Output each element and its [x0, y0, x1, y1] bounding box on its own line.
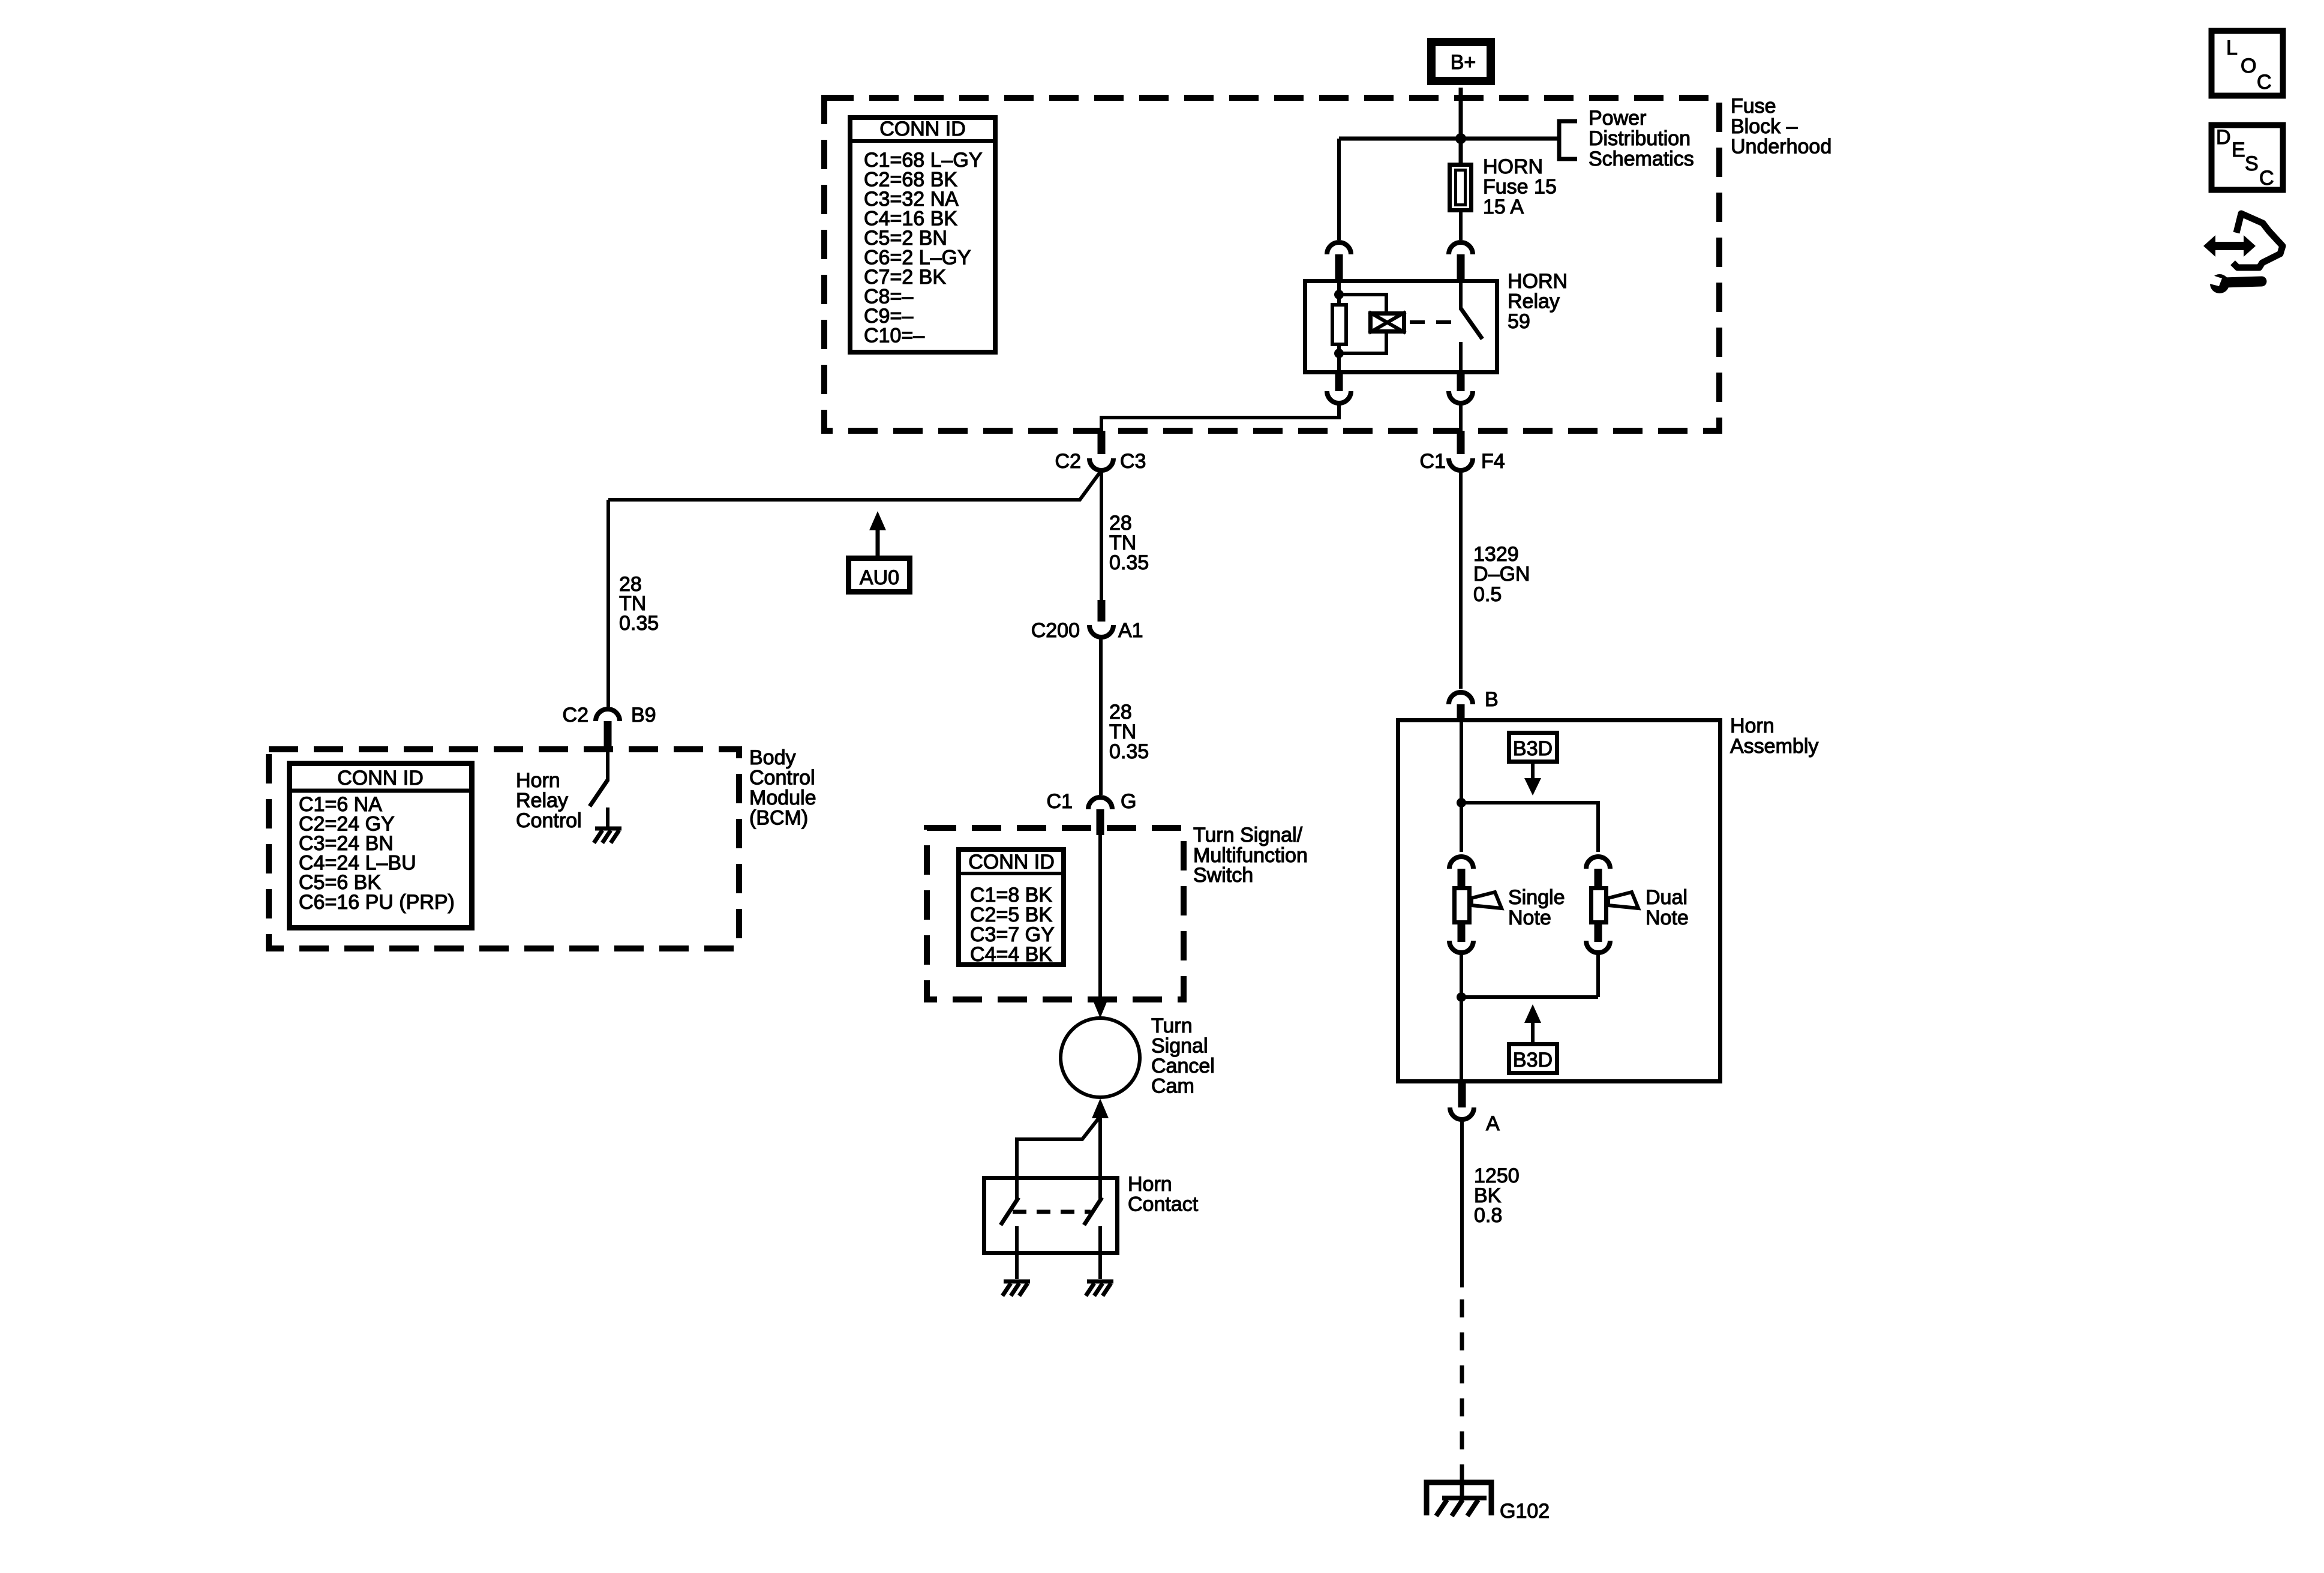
- B3D arrow shaft (top): [1531, 762, 1535, 780]
- left horn contact switch blade: [1001, 1197, 1019, 1225]
- svg-text:C200: C200: [1031, 619, 1080, 642]
- connector C1/G stub: [1097, 809, 1104, 835]
- svg-text:Dual: Dual: [1646, 886, 1688, 909]
- svg-text:C: C: [2257, 71, 2272, 94]
- wire: run down to BCM: [606, 500, 610, 707]
- svg-text:CONN ID: CONN ID: [337, 767, 424, 789]
- turn signal cancel cam circle: [1061, 1018, 1140, 1097]
- wire resistor to relay bottom: [1337, 344, 1341, 374]
- dual note horn flag: [1608, 892, 1638, 908]
- CONN ID table (fuse block): [848, 118, 998, 352]
- connector C1/F4 arc: [1449, 458, 1473, 470]
- right horn contact bottom contact: [1098, 1226, 1102, 1279]
- wire label 1250 BK 0.8: [1474, 1164, 1520, 1227]
- svg-text:Body: Body: [749, 746, 796, 769]
- chassis ground (left horn contact): [1002, 1281, 1030, 1296]
- AU0 option arrow shaft: [876, 529, 880, 556]
- BCM switch blade: [590, 780, 608, 806]
- chassis ground (right horn contact): [1086, 1281, 1113, 1296]
- connector arc below relay (switch output): [1449, 391, 1473, 403]
- svg-text:C: C: [2259, 167, 2274, 190]
- dual note connector arc (bottom): [1586, 941, 1610, 953]
- arrowhead from horn contact (up): [1092, 1098, 1109, 1118]
- dual note stub (bottom): [1595, 924, 1602, 942]
- svg-text:O: O: [2241, 55, 2256, 77]
- battery B+ symbol: [1431, 42, 1491, 81]
- svg-text:C1: C1: [1047, 790, 1073, 813]
- svg-text:Control: Control: [516, 809, 582, 832]
- node dot (horn feed split): [1457, 798, 1466, 807]
- connector A arc: [1450, 1107, 1474, 1119]
- connector C1/F4 stub: [1457, 431, 1465, 454]
- connector arc below relay (coil low side): [1327, 391, 1351, 403]
- right horn contact switch top contact: [1098, 1176, 1102, 1199]
- label: HORN Relay 59: [1508, 270, 1568, 333]
- wire: cam arrow fork to left horn contact: [1017, 1117, 1100, 1177]
- svg-text:Relay: Relay: [516, 789, 568, 812]
- svg-text:Control: Control: [749, 767, 815, 789]
- svg-text:Horn: Horn: [516, 769, 560, 792]
- label: HORN Fuse 15 15A: [1483, 155, 1557, 218]
- svg-text:Fuse 15: Fuse 15: [1483, 176, 1557, 199]
- battery feed wire: [1459, 88, 1463, 163]
- power distribution schematics bracket: [1559, 121, 1577, 159]
- svg-text:A: A: [1486, 1112, 1500, 1135]
- svg-text:Single: Single: [1508, 886, 1565, 909]
- ground G102: [1427, 1482, 1550, 1523]
- wire: single note to low junction: [1460, 953, 1463, 999]
- label: Turn Signal/Multifunction Switch: [1193, 824, 1308, 887]
- svg-text:AU0: AU0: [860, 566, 899, 589]
- svg-text:D–GN: D–GN: [1473, 563, 1530, 586]
- wire: relay switch output to C1/F4: [1459, 403, 1463, 433]
- wire: into ground: [1460, 1471, 1464, 1498]
- svg-text:B: B: [1485, 688, 1499, 711]
- svg-text:Cancel: Cancel: [1151, 1055, 1215, 1077]
- connector C2/C3 stub: [1098, 431, 1106, 454]
- B3D arrowhead (bottom, up): [1524, 1004, 1541, 1023]
- fuse HORN Fuse 15: [1450, 165, 1472, 211]
- svg-text:0.35: 0.35: [619, 612, 659, 635]
- B3D destination box (bottom): [1509, 1044, 1557, 1073]
- svg-text:G: G: [1121, 790, 1136, 813]
- body control module dashed box: [269, 749, 739, 948]
- svg-text:B+: B+: [1451, 51, 1476, 74]
- connector A stub: [1458, 1083, 1466, 1107]
- horn assembly box: [1398, 721, 1721, 1082]
- wire: cam arrow to right horn contact: [1098, 1117, 1102, 1177]
- left horn contact bottom contact: [1015, 1226, 1019, 1279]
- svg-text:Signal: Signal: [1151, 1035, 1208, 1058]
- svg-text:0.35: 0.35: [1109, 551, 1149, 574]
- relay coil branch wiring: [1339, 295, 1386, 353]
- svg-text:CONN ID: CONN ID: [879, 118, 966, 140]
- svg-text:Fuse: Fuse: [1731, 95, 1776, 118]
- svg-text:C2: C2: [563, 704, 588, 727]
- svg-text:Turn: Turn: [1151, 1014, 1193, 1037]
- label: Fuse Block - Underhood: [1731, 95, 1831, 158]
- svg-text:C1: C1: [1420, 450, 1446, 473]
- wire: B pin to branch junction: [1460, 720, 1463, 852]
- resistor (relay): [1332, 305, 1346, 344]
- wire: dual note return to junction: [1461, 995, 1598, 999]
- svg-text:59: 59: [1508, 310, 1530, 333]
- connector B arc: [1449, 692, 1473, 704]
- label: Horn Relay Control: [516, 769, 582, 832]
- label: Dual Note: [1646, 886, 1689, 929]
- svg-text:C10=–: C10=–: [864, 325, 924, 347]
- connector C2/B9 stub: [604, 721, 612, 751]
- AU0 option box: [849, 559, 910, 592]
- dashed actuation link coil to switch: [1410, 320, 1454, 324]
- svg-text:Underhood: Underhood: [1731, 136, 1831, 158]
- wire label 28 TN 0.35 (lower): [1109, 701, 1149, 763]
- svg-text:0.35: 0.35: [1109, 740, 1149, 763]
- svg-text:S: S: [2245, 152, 2259, 175]
- relay switch blade: [1461, 308, 1482, 339]
- node dot (horn return join): [1457, 992, 1466, 1002]
- wire: junction down to A pin: [1460, 997, 1463, 1086]
- pin stub out of relay (coil low side): [1335, 374, 1343, 391]
- dual note horn connector arc (top): [1586, 857, 1610, 869]
- pin stub out of relay (switch output): [1457, 374, 1465, 391]
- svg-text:Switch: Switch: [1193, 864, 1253, 887]
- wire: C1/G into switch down to cancel cam: [1098, 835, 1102, 999]
- double arrow icon: [2203, 235, 2256, 257]
- svg-text:B9: B9: [631, 704, 656, 727]
- svg-text:Horn: Horn: [1730, 715, 1774, 737]
- label: Power Distribution Schematics: [1589, 107, 1694, 170]
- relay switch top contact: [1459, 279, 1463, 310]
- svg-text:B3D: B3D: [1513, 1049, 1553, 1071]
- svg-text:Note: Note: [1646, 906, 1689, 929]
- svg-text:A1: A1: [1118, 619, 1143, 642]
- svg-text:C4=4 BK: C4=4 BK: [970, 943, 1052, 966]
- svg-text:C6=16 PU (PRP): C6=16 PU (PRP): [299, 891, 455, 914]
- label: Horn Assembly: [1730, 715, 1818, 758]
- svg-text:Note: Note: [1508, 906, 1551, 929]
- svg-text:G102: G102: [1500, 1500, 1550, 1523]
- svg-text:E: E: [2232, 139, 2245, 161]
- svg-text:Distribution: Distribution: [1589, 127, 1691, 150]
- connector arc (relay switch pin, top right): [1449, 242, 1473, 254]
- single note horn connector arc (top): [1449, 857, 1473, 869]
- chassis ground (BCM): [594, 828, 621, 843]
- svg-text:C3: C3: [1120, 450, 1146, 473]
- wire: fuse to relay switch connector: [1459, 212, 1463, 240]
- inline connector C200/A1 arc: [1089, 625, 1113, 637]
- svg-text:F4: F4: [1481, 450, 1505, 473]
- dashed gang link between contacts: [1013, 1210, 1091, 1214]
- wire label 28 TN 0.35 (upper): [1109, 512, 1149, 574]
- label: Horn Contact: [1128, 1173, 1199, 1216]
- label: Body Control Module (BCM): [749, 746, 816, 830]
- B3D arrow shaft (bottom): [1531, 1022, 1535, 1044]
- wire: branch to dual note: [1461, 803, 1598, 852]
- hand/flag outline icon: [2233, 214, 2283, 268]
- wire label 1329 D-GN 0.5: [1473, 543, 1530, 606]
- svg-text:Turn Signal/: Turn Signal/: [1193, 824, 1303, 846]
- wire: A down: [1460, 1119, 1464, 1287]
- wire: C1/F4 down to horn assembly: [1459, 470, 1463, 689]
- AU0 option arrowhead: [869, 511, 886, 530]
- connector C2/B9 arc: [596, 709, 620, 721]
- wire label 28 TN 0.35 (BCM branch): [619, 573, 659, 635]
- svg-text:Power: Power: [1589, 107, 1646, 130]
- horn relay 59 box: [1305, 281, 1497, 373]
- svg-text:Schematics: Schematics: [1589, 148, 1694, 170]
- single note stub (top): [1458, 869, 1466, 887]
- inline connector C200/A1 stub: [1098, 600, 1106, 622]
- B3D destination box (top): [1509, 733, 1557, 762]
- svg-text:15 A: 15 A: [1483, 196, 1524, 218]
- svg-text:(BCM): (BCM): [749, 807, 808, 830]
- svg-text:D: D: [2216, 126, 2231, 149]
- svg-text:Cam: Cam: [1151, 1075, 1194, 1098]
- wire: C200 to turn signal switch: [1099, 637, 1103, 795]
- fuse block underhood dashed box: [824, 98, 1719, 431]
- LOC icon box: [2212, 31, 2283, 96]
- wrench icon: [2203, 273, 2262, 293]
- wire: dual note to low junction: [1596, 953, 1600, 997]
- left horn contact switch top contact: [1015, 1176, 1019, 1199]
- single note horn flag: [1472, 892, 1502, 908]
- svg-text:Block –: Block –: [1731, 115, 1798, 138]
- wire: feed bus to relay branch and power distribution: [1339, 137, 1559, 141]
- dual note stub (top): [1595, 869, 1602, 887]
- connector B stub: [1457, 704, 1465, 722]
- connector C2/C3 arc: [1089, 458, 1113, 470]
- BCM switch top contact: [606, 751, 609, 781]
- svg-text:HORN: HORN: [1483, 155, 1543, 178]
- node dot (coil top): [1334, 290, 1344, 299]
- dual note horn element: [1592, 888, 1607, 923]
- node: B+ junction dot: [1455, 133, 1466, 144]
- arrowhead into cancel cam (down): [1092, 998, 1109, 1018]
- label: Turn Signal Cancel Cam: [1151, 1014, 1215, 1098]
- single note horn element: [1455, 888, 1470, 923]
- relay resistor branch wire: [1337, 279, 1341, 305]
- svg-text:Assembly: Assembly: [1730, 735, 1818, 758]
- single note stub (bottom): [1458, 924, 1466, 942]
- relay switch bottom contact: [1459, 342, 1463, 374]
- B3D arrowhead (top, down): [1524, 778, 1541, 795]
- dashed splice run to ground: [1460, 1299, 1464, 1471]
- svg-text:Horn: Horn: [1128, 1173, 1172, 1196]
- svg-text:0.5: 0.5: [1473, 583, 1502, 606]
- relay coil symbol (box with X): [1369, 312, 1406, 333]
- connector C1/G arc: [1088, 797, 1112, 809]
- svg-text:C2: C2: [1055, 450, 1081, 473]
- svg-text:B3D: B3D: [1513, 737, 1553, 760]
- wire: C2/C3 down to C200: [1100, 470, 1103, 601]
- pin stub into relay (coil): [1335, 254, 1343, 279]
- pin stub into relay (switch): [1457, 254, 1465, 279]
- right horn contact switch blade: [1084, 1197, 1102, 1225]
- svg-text:L: L: [2226, 37, 2238, 59]
- wire: bus down to relay coil connector: [1337, 139, 1341, 240]
- svg-text:0.8: 0.8: [1474, 1204, 1502, 1227]
- wire: relay coil low side to C2/C3: [1101, 403, 1339, 432]
- CONN ID table (BCM): [287, 764, 475, 928]
- svg-text:Module: Module: [749, 786, 816, 809]
- single note connector arc (bottom): [1449, 941, 1473, 953]
- horn contact box: [984, 1178, 1118, 1253]
- label: Single Note: [1508, 886, 1565, 929]
- node dot (coil bottom): [1334, 349, 1344, 358]
- turn signal multifunction switch dashed box: [927, 828, 1184, 999]
- wire: C2/C3 to BCM run (diagonal + horizontal): [608, 470, 1101, 500]
- svg-text:Contact: Contact: [1128, 1193, 1199, 1216]
- connector arc (relay coil pin, top left): [1327, 242, 1351, 254]
- svg-text:Relay: Relay: [1508, 290, 1560, 313]
- BCM switch bottom contact: [606, 807, 609, 827]
- svg-text:HORN: HORN: [1508, 270, 1568, 293]
- DESC icon box: [2212, 125, 2283, 190]
- svg-text:CONN ID: CONN ID: [968, 851, 1055, 873]
- CONN ID table (turn signal switch): [956, 849, 1066, 966]
